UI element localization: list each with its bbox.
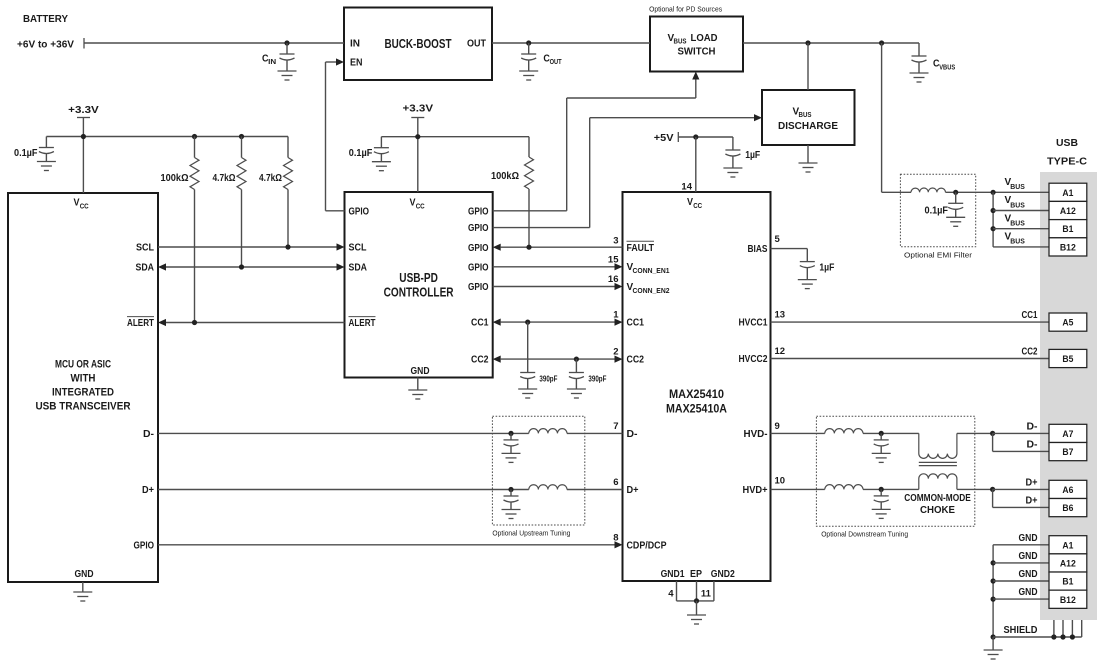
svg-text:100kΩ: 100kΩ (161, 173, 189, 184)
svg-text:CC: CC (416, 203, 425, 210)
svg-text:HVD+: HVD+ (743, 485, 768, 496)
svg-text:390pF: 390pF (588, 374, 606, 384)
svg-text:11: 11 (701, 589, 712, 600)
svg-text:CONN_EN1: CONN_EN1 (633, 266, 670, 275)
svg-text:4.7kΩ: 4.7kΩ (213, 173, 236, 184)
svg-text:BUS: BUS (674, 39, 687, 46)
svg-text:390pF: 390pF (539, 374, 557, 384)
svg-text:D-: D- (1027, 421, 1038, 432)
svg-text:CDP/DCP: CDP/DCP (627, 540, 667, 551)
svg-text:D-: D- (627, 429, 638, 440)
svg-text:GND2: GND2 (711, 569, 735, 580)
svg-text:B5: B5 (1062, 354, 1074, 365)
svg-text:IN: IN (350, 38, 360, 49)
svg-text:CC: CC (693, 203, 702, 210)
svg-text:16: 16 (608, 274, 619, 285)
svg-text:14: 14 (681, 182, 692, 193)
svg-text:GND: GND (1019, 569, 1038, 580)
svg-text:OUT: OUT (467, 38, 486, 49)
svg-text:0.1µF: 0.1µF (925, 206, 949, 217)
svg-text:USB-PD: USB-PD (399, 271, 438, 285)
svg-text:B7: B7 (1062, 447, 1073, 458)
svg-text:ALERT: ALERT (127, 318, 154, 329)
svg-text:Optional Downstream Tuning: Optional Downstream Tuning (821, 530, 908, 539)
svg-text:GND1: GND1 (661, 569, 685, 580)
svg-text:SWITCH: SWITCH (678, 47, 716, 58)
svg-text:TYPE-C: TYPE-C (1047, 156, 1087, 168)
svg-text:MAX25410A: MAX25410A (666, 402, 727, 416)
svg-text:FAULT: FAULT (627, 243, 655, 254)
svg-text:BUS: BUS (1010, 221, 1025, 228)
svg-text:8: 8 (613, 532, 618, 543)
svg-text:GPIO: GPIO (468, 282, 489, 293)
svg-text:SDA: SDA (349, 263, 368, 274)
svg-text:GPIO: GPIO (349, 206, 370, 217)
svg-text:A6: A6 (1062, 485, 1073, 496)
svg-text:BUCK-BOOST: BUCK-BOOST (385, 37, 452, 51)
svg-text:7: 7 (613, 421, 618, 432)
svg-text:BATTERY: BATTERY (23, 14, 69, 25)
svg-text:BUS: BUS (1010, 184, 1025, 191)
svg-text:A1: A1 (1062, 540, 1074, 551)
svg-text:USB: USB (1056, 137, 1078, 149)
svg-text:CC1: CC1 (471, 318, 489, 329)
svg-text:BIAS: BIAS (748, 244, 768, 255)
svg-text:GND: GND (411, 366, 430, 377)
svg-text:CC: CC (80, 203, 89, 210)
svg-text:5: 5 (775, 234, 781, 245)
svg-text:+6V to +36V: +6V to +36V (17, 40, 75, 51)
svg-text:SCL: SCL (349, 243, 367, 254)
svg-text:USB TRANSCEIVER: USB TRANSCEIVER (36, 401, 131, 413)
svg-text:GND: GND (75, 569, 94, 580)
svg-text:CC1: CC1 (1022, 310, 1038, 321)
svg-text:+5V: +5V (654, 133, 674, 144)
svg-text:VBUS: VBUS (939, 64, 955, 71)
svg-text:D+: D+ (142, 485, 154, 496)
svg-text:BUS: BUS (1010, 202, 1025, 209)
svg-text:EN: EN (350, 57, 363, 68)
svg-text:1µF: 1µF (745, 150, 760, 161)
svg-text:0.1µF: 0.1µF (349, 148, 373, 159)
svg-text:Optional Upstream Tuning: Optional Upstream Tuning (492, 529, 570, 538)
svg-text:B12: B12 (1060, 242, 1076, 253)
svg-text:A12: A12 (1060, 206, 1076, 217)
svg-text:A5: A5 (1062, 318, 1074, 329)
svg-text:+3.3V: +3.3V (403, 104, 434, 115)
svg-text:B12: B12 (1060, 595, 1076, 606)
svg-text:D+: D+ (1026, 477, 1038, 488)
svg-text:100kΩ: 100kΩ (491, 171, 519, 182)
svg-text:GND: GND (1019, 551, 1038, 562)
svg-text:CHOKE: CHOKE (920, 505, 955, 516)
svg-text:10: 10 (775, 476, 786, 487)
svg-text:CC2: CC2 (627, 355, 645, 366)
svg-text:1µF: 1µF (819, 263, 834, 274)
svg-text:1: 1 (613, 310, 619, 321)
svg-text:0.1µF: 0.1µF (14, 148, 38, 159)
svg-text:INTEGRATED: INTEGRATED (52, 387, 114, 399)
svg-text:HVCC2: HVCC2 (739, 354, 768, 365)
svg-text:OUT: OUT (550, 59, 563, 66)
svg-text:BUS: BUS (799, 112, 812, 119)
svg-text:B1: B1 (1062, 224, 1074, 235)
svg-text:B6: B6 (1062, 503, 1073, 514)
svg-text:GPIO: GPIO (468, 223, 489, 234)
svg-text:Optional for PD Sources: Optional for PD Sources (649, 5, 722, 14)
svg-text:GPIO: GPIO (134, 540, 155, 551)
svg-text:Optional EMI Filter: Optional EMI Filter (904, 251, 973, 260)
svg-text:A1: A1 (1062, 188, 1074, 199)
svg-text:GND: GND (1019, 533, 1038, 544)
svg-text:GND: GND (1019, 587, 1038, 598)
svg-text:6: 6 (613, 477, 618, 488)
svg-text:EP: EP (690, 569, 702, 580)
svg-text:CC2: CC2 (1022, 347, 1038, 358)
svg-text:WITH: WITH (71, 373, 96, 385)
svg-text:9: 9 (775, 421, 780, 432)
svg-text:GPIO: GPIO (468, 206, 489, 217)
svg-text:MAX25410: MAX25410 (669, 387, 724, 401)
svg-text:HVCC1: HVCC1 (739, 318, 768, 329)
svg-text:MCU OR ASIC: MCU OR ASIC (55, 359, 111, 371)
svg-text:COMMON-MODE: COMMON-MODE (904, 493, 971, 504)
svg-text:CONN_EN2: CONN_EN2 (633, 286, 670, 295)
svg-text:12: 12 (775, 346, 786, 357)
svg-text:+3.3V: +3.3V (68, 105, 99, 116)
svg-text:4.7kΩ: 4.7kΩ (259, 173, 282, 184)
svg-text:CONTROLLER: CONTROLLER (384, 286, 454, 300)
svg-text:GPIO: GPIO (468, 262, 489, 273)
svg-text:CC1: CC1 (627, 318, 645, 329)
svg-text:D+: D+ (627, 485, 639, 496)
svg-text:D+: D+ (1026, 495, 1038, 506)
svg-text:A12: A12 (1060, 558, 1076, 569)
svg-text:LOAD: LOAD (691, 33, 718, 44)
svg-text:SCL: SCL (136, 243, 154, 254)
svg-text:13: 13 (775, 310, 786, 321)
svg-text:3: 3 (613, 235, 618, 246)
svg-text:D-: D- (1027, 439, 1038, 450)
svg-text:CC2: CC2 (471, 355, 489, 366)
svg-text:4: 4 (668, 589, 674, 600)
svg-text:GPIO: GPIO (468, 243, 489, 254)
svg-text:HVD-: HVD- (744, 429, 768, 440)
svg-text:2: 2 (613, 347, 618, 358)
svg-text:SDA: SDA (136, 263, 155, 274)
svg-text:BUS: BUS (1010, 239, 1025, 246)
svg-text:B1: B1 (1062, 577, 1074, 588)
svg-text:A7: A7 (1062, 429, 1073, 440)
svg-text:ALERT: ALERT (349, 318, 376, 329)
svg-text:DISCHARGE: DISCHARGE (778, 121, 838, 132)
svg-text:15: 15 (608, 254, 619, 265)
svg-text:IN: IN (268, 59, 276, 66)
svg-text:D-: D- (143, 429, 154, 440)
svg-text:SHIELD: SHIELD (1004, 625, 1038, 636)
